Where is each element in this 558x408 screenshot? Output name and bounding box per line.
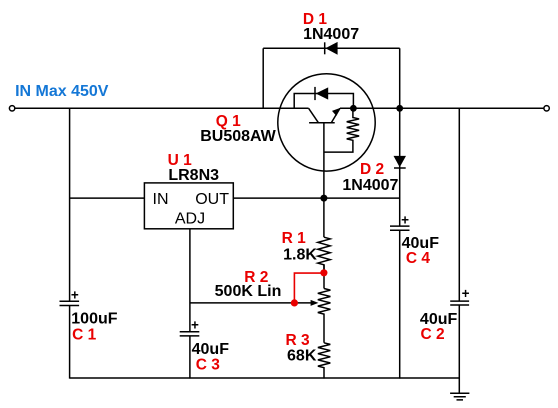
- capacitor C4: [390, 212, 439, 267]
- wire wiper: [190, 302, 313, 304]
- svg-text:100uF: 100uF: [71, 311, 117, 328]
- internal damper diode wire: [294, 94, 353, 109]
- svg-text:LR8N3: LR8N3: [168, 167, 219, 184]
- diode D1: [303, 11, 359, 55]
- wire D1 top horizontal: [263, 47, 400, 49]
- node OUT/base junction: [320, 195, 327, 202]
- svg-text:C 1: C 1: [72, 327, 97, 344]
- svg-text:+: +: [191, 317, 199, 332]
- svg-text:C 3: C 3: [196, 356, 221, 373]
- wire left vertical: [69, 108, 71, 301]
- svg-text:C 4: C 4: [406, 250, 431, 267]
- svg-text:1.8K: 1.8K: [283, 246, 317, 263]
- svg-text:ADJ: ADJ: [175, 211, 205, 228]
- svg-text:C 2: C 2: [421, 326, 445, 343]
- wire below C3: [189, 336, 191, 379]
- base bar: [309, 122, 335, 124]
- wire red wiper link: [294, 273, 324, 303]
- svg-text:+: +: [401, 212, 409, 227]
- wiper arrow: [311, 300, 319, 306]
- emitter arrow: [332, 108, 340, 116]
- svg-text:+: +: [71, 287, 79, 302]
- node emitter junction: [350, 105, 357, 112]
- wire D1 left vertical: [262, 48, 264, 108]
- node D1/D2 junction: [396, 105, 403, 112]
- wire Q1 base vertical: [323, 123, 325, 237]
- svg-text:BU508AW: BU508AW: [200, 128, 276, 145]
- wire below C4: [399, 230, 401, 378]
- svg-text:1N4007: 1N4007: [342, 177, 398, 194]
- internal resistor: [324, 108, 359, 152]
- emitter diagonal: [331, 108, 340, 123]
- wire between R1 and R2: [323, 265, 325, 289]
- wire top rail left: [15, 107, 309, 109]
- node red wiper junction: [291, 299, 298, 306]
- capacitor C1: [60, 287, 118, 343]
- potentiometer R2: [215, 269, 331, 343]
- wire below C2 to ground: [458, 305, 460, 393]
- output terminal: [544, 106, 549, 111]
- resistor R3: [285, 332, 330, 379]
- svg-text:68K: 68K: [287, 347, 317, 364]
- input terminal: [9, 106, 14, 111]
- wire U1 OUT lead: [233, 197, 399, 199]
- wire top rail right: [340, 107, 544, 109]
- svg-text:OUT: OUT: [195, 191, 229, 208]
- resistor R1: [282, 230, 331, 273]
- svg-text:1N4007: 1N4007: [303, 26, 359, 43]
- node red R1 junction: [320, 269, 327, 276]
- svg-text:IN: IN: [153, 191, 169, 208]
- svg-text:IN Max 450V: IN Max 450V: [15, 83, 109, 100]
- collector diagonal: [309, 108, 319, 122]
- ground: [450, 393, 469, 400]
- wire ADJ lead down: [189, 229, 191, 332]
- transistor Q1: [200, 74, 375, 171]
- svg-text:D 2: D 2: [360, 161, 384, 178]
- svg-text:500K Lin: 500K Lin: [215, 283, 282, 300]
- diode D2: [342, 156, 406, 194]
- wire below C1: [69, 306, 71, 379]
- capacitor C3: [180, 317, 229, 373]
- wire bottom rail: [70, 377, 460, 379]
- wire C2 branch vertical: [458, 108, 460, 301]
- internal diode symbol: [314, 87, 316, 100]
- svg-text:R 1: R 1: [282, 230, 307, 247]
- capacitor C2: [420, 286, 470, 343]
- regulator U1: [144, 152, 233, 229]
- wire D1 right vertical / D2 branch: [399, 48, 401, 226]
- svg-text:+: +: [462, 286, 470, 301]
- wire U1 IN lead: [70, 197, 145, 199]
